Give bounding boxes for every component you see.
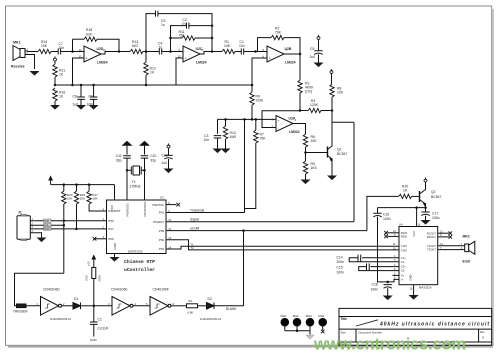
power +V tap above R8 bbox=[330, 69, 333, 74]
svg-text:Signal: Signal bbox=[190, 218, 199, 222]
node R11 left bbox=[169, 37, 172, 40]
svg-text:A: A bbox=[482, 336, 484, 340]
svg-text:Y1: Y1 bbox=[132, 180, 136, 184]
svg-text:R1IN: R1IN bbox=[401, 231, 407, 235]
svg-text:10n: 10n bbox=[204, 138, 210, 142]
svg-text:uCOM: uCOM bbox=[190, 226, 200, 230]
svg-text:62K: 62K bbox=[86, 33, 93, 37]
svg-text:1N4148DO35-10: 1N4148DO35-10 bbox=[200, 317, 222, 321]
resistor R12 1K bbox=[144, 52, 156, 86]
ground (C11, inverted) bbox=[123, 141, 131, 145]
svg-text:VCC: VCC bbox=[110, 204, 114, 211]
svg-text:1u0: 1u0 bbox=[310, 55, 316, 59]
svg-text:33p: 33p bbox=[150, 159, 156, 163]
svg-text:C14: C14 bbox=[336, 255, 342, 259]
wire J1 pin2 to pullup column bbox=[34, 224, 64, 226]
wire feedback right segment U2D bbox=[97, 39, 119, 51]
resistor R9 220K bbox=[250, 85, 264, 119]
wire Q2 emitter rail to MAX232 VCC bbox=[378, 207, 426, 209]
svg-text:P61: P61 bbox=[159, 211, 165, 215]
node R21/R16 bbox=[54, 84, 57, 87]
wire MH3 to ground bbox=[309, 331, 311, 335]
svg-text:200K: 200K bbox=[98, 275, 102, 282]
node U2D output bbox=[118, 50, 121, 53]
svg-text:10K: 10K bbox=[337, 91, 344, 95]
svg-text:P60/OSCI: P60/OSCI bbox=[125, 203, 129, 217]
wire U2D pin12 loop to vref rail bbox=[73, 58, 85, 85]
svg-text:27MHZ: 27MHZ bbox=[130, 185, 141, 189]
wire J1 pin1 to P50 row bbox=[34, 220, 106, 222]
node U2B input bbox=[254, 50, 257, 53]
node R19 pullup bbox=[75, 183, 78, 186]
svg-text:100n: 100n bbox=[371, 287, 379, 291]
svg-text:C10: C10 bbox=[150, 154, 156, 158]
node C6 on rail bbox=[92, 84, 95, 87]
microcontroller U3 EM78P153S box bbox=[103, 196, 172, 254]
resistor R8 10K bbox=[330, 74, 344, 111]
svg-text:LM324: LM324 bbox=[285, 61, 296, 65]
op-amp U2D LM324 bbox=[79, 46, 108, 65]
ground (C6) bbox=[89, 105, 99, 110]
resistor R2 6.8K (box style) bbox=[187, 299, 198, 315]
svg-text:C1+: C1+ bbox=[401, 256, 406, 260]
ground (J1) bbox=[37, 238, 47, 243]
svg-text:C6: C6 bbox=[89, 95, 93, 99]
wire VCC down to U4 bbox=[416, 208, 418, 227]
svg-text:10p: 10p bbox=[182, 21, 187, 25]
wire R19 to P67 row bbox=[76, 204, 78, 229]
capacitor C18 100n bbox=[371, 282, 392, 296]
svg-text:33p: 33p bbox=[116, 159, 122, 163]
svg-text:220K: 220K bbox=[256, 99, 265, 103]
svg-text:MAX232A: MAX232A bbox=[419, 285, 432, 289]
wire C9 loop right to output node bbox=[158, 14, 212, 52]
svg-text:75K: 75K bbox=[179, 33, 186, 37]
wire U2D output to R13 bbox=[101, 52, 130, 55]
wire mounting hole bus bbox=[285, 330, 310, 332]
connector J1 bbox=[17, 211, 34, 241]
resistor R3 4K99 bbox=[298, 54, 313, 111]
svg-text:EM78P153S: EM78P153S bbox=[128, 249, 143, 253]
svg-text:-: - bbox=[278, 127, 279, 131]
svg-text:U2B: U2B bbox=[285, 47, 292, 51]
ground (R5) bbox=[301, 180, 311, 185]
wire C9 loop left vertical bbox=[146, 14, 155, 52]
svg-text:-: - bbox=[269, 50, 270, 54]
svg-text:C11: C11 bbox=[116, 154, 122, 158]
capacitor C15 100n bbox=[336, 263, 399, 274]
power +V tap above Q2 bbox=[424, 177, 427, 182]
title scribble text bbox=[356, 320, 489, 328]
svg-text:120K: 120K bbox=[310, 103, 319, 107]
svg-text:+: + bbox=[269, 57, 271, 61]
capacitor C12 1u0 bbox=[162, 148, 173, 169]
svg-text:D2: D2 bbox=[208, 297, 212, 301]
svg-text:Receive: Receive bbox=[11, 65, 25, 69]
capacitor C10 33p bbox=[141, 146, 157, 171]
svg-text:1K: 1K bbox=[59, 73, 64, 77]
svg-text:BC847: BC847 bbox=[431, 195, 441, 199]
wire U2B output to R3 vertical bbox=[284, 53, 300, 55]
svg-text:10K: 10K bbox=[92, 197, 97, 201]
resistor R19 10K pull-up bbox=[74, 185, 85, 204]
op-amp U2C LM324 bbox=[178, 46, 207, 65]
svg-text:CD40106F: CD40106F bbox=[153, 288, 169, 292]
svg-text:R2IN: R2IN bbox=[401, 235, 407, 239]
node uCOM/BLANK column bbox=[242, 229, 245, 232]
svg-text:LM324: LM324 bbox=[97, 61, 108, 65]
wire mic pin1 to R14 bbox=[28, 51, 39, 53]
wire C4 to U2C input node bbox=[162, 51, 183, 53]
svg-text:C12: C12 bbox=[162, 154, 168, 158]
svg-text:C15: C15 bbox=[336, 266, 342, 270]
svg-text:LM324: LM324 bbox=[196, 61, 207, 65]
svg-text:P53: P53 bbox=[159, 229, 165, 233]
wire VCC pin from rail bbox=[114, 185, 116, 200]
svg-text:CLK: CLK bbox=[44, 224, 49, 227]
svg-text:U3: U3 bbox=[160, 196, 164, 200]
resistor R7 75K bbox=[245, 119, 267, 208]
power +V tap above R21 bbox=[54, 56, 57, 61]
resistor R4 120K bbox=[300, 99, 332, 113]
wire U2B pin6 loop down to vref rail end bbox=[252, 58, 267, 85]
ground (R10) bbox=[221, 149, 231, 154]
svg-text:10K: 10K bbox=[311, 139, 318, 143]
microphone MK1 (Receive) bbox=[11, 41, 29, 69]
svg-text:100n: 100n bbox=[432, 216, 440, 220]
wire trigger net from pullup column down left side bbox=[15, 273, 64, 306]
svg-text:1n: 1n bbox=[161, 23, 165, 27]
svg-text:1K: 1K bbox=[150, 71, 155, 75]
node MH2 bbox=[296, 329, 299, 332]
node threshold column on +rail bbox=[243, 118, 246, 121]
node U2B output bbox=[299, 53, 302, 56]
node R7 on +rail bbox=[255, 118, 257, 121]
node Y1 right bbox=[143, 169, 146, 172]
wire BLANK vertical bbox=[243, 231, 245, 306]
resistor R20 1K (base) bbox=[399, 185, 412, 199]
node R12/C9 junction bbox=[145, 50, 148, 53]
svg-text:C2-: C2- bbox=[401, 269, 405, 273]
node J1 pin2 bbox=[63, 224, 66, 227]
svg-text:1K5: 1K5 bbox=[311, 166, 317, 170]
svg-text:Chinese OTP: Chinese OTP bbox=[124, 259, 155, 265]
svg-text:BC847: BC847 bbox=[337, 152, 347, 156]
op-amp U2A LM324 bbox=[272, 116, 300, 135]
wire R2 to D2 bbox=[198, 305, 207, 307]
ground (U3) bbox=[110, 257, 120, 262]
ground (R16) bbox=[50, 105, 60, 110]
svg-text:1M0: 1M0 bbox=[230, 135, 237, 139]
ground (C18) bbox=[383, 296, 393, 301]
capacitor C7 10n bbox=[58, 42, 64, 55]
uController title text bbox=[124, 259, 155, 273]
wire uCOM net P53 bbox=[166, 230, 367, 232]
svg-text:40kHz ultrasonic distance circ: 40kHz ultrasonic distance circuit bbox=[379, 322, 489, 328]
wire R21 to vref rail bbox=[54, 77, 56, 85]
node R12/vref bbox=[145, 84, 148, 87]
svg-text:V-: V- bbox=[401, 278, 404, 282]
power +V tap above C5 bbox=[317, 35, 320, 40]
resistor R2 76K bbox=[271, 27, 284, 40]
capacitor C4 1n bbox=[158, 42, 162, 55]
node R6/R5/Q1 base bbox=[304, 151, 307, 154]
op-amp U2B LM324 bbox=[263, 46, 296, 65]
wire OSCO down to U3 bbox=[144, 170, 146, 200]
speaker MK2 (Emit) bbox=[461, 235, 475, 264]
svg-text:10K: 10K bbox=[41, 44, 48, 48]
wire R11 left segment bbox=[171, 37, 183, 39]
svg-text:U4: U4 bbox=[399, 222, 403, 226]
wire R2 right to output vertical bbox=[284, 38, 300, 54]
wire V+ stub bbox=[393, 274, 400, 276]
node C18 bbox=[386, 281, 389, 284]
svg-text:VCC: VCC bbox=[412, 231, 416, 237]
svg-text:P67: P67 bbox=[108, 227, 114, 231]
power +V tap for C12 bbox=[167, 143, 170, 148]
resistor R6 10K bbox=[303, 134, 317, 161]
no-connect X on P66 bbox=[93, 237, 107, 241]
net tag on J1 pin1 bbox=[44, 219, 52, 223]
svg-text:Size: Size bbox=[340, 330, 346, 334]
svg-text:GND: GND bbox=[409, 274, 413, 280]
svg-text:75K: 75K bbox=[260, 137, 267, 141]
svg-text:+: + bbox=[86, 57, 88, 61]
svg-text:R1OUT: R1OUT bbox=[427, 231, 436, 235]
capacitor C3 10n to ground bbox=[204, 119, 222, 148]
svg-text:LM324: LM324 bbox=[289, 130, 300, 134]
svg-text:10n: 10n bbox=[59, 46, 65, 50]
node pin12/vref bbox=[71, 84, 74, 87]
wire C1 to U2B input node bbox=[244, 51, 267, 53]
wire signal vertical down to P64 row bbox=[353, 122, 355, 222]
svg-text:C1-: C1- bbox=[401, 260, 405, 264]
wire GND pin down bbox=[114, 254, 116, 258]
no-connect X on R1OUT bbox=[438, 231, 452, 235]
crystal Y1 27MHZ bbox=[127, 166, 145, 189]
svg-text:[1%]: [1%] bbox=[305, 90, 312, 94]
node Q2 emitter bbox=[424, 206, 427, 209]
wire R14 to C7 bbox=[51, 51, 58, 53]
svg-text:Emit: Emit bbox=[463, 260, 471, 264]
svg-text:P52: P52 bbox=[159, 238, 165, 242]
svg-text:MH3: MH3 bbox=[306, 314, 312, 318]
wire R20 down through J1 rows to trigger net bbox=[63, 204, 65, 273]
svg-text:Rev: Rev bbox=[480, 330, 485, 334]
wire U4 GND pin down bbox=[413, 285, 415, 295]
wire threshold vertical bbox=[244, 119, 246, 212]
no-connect X on R2OUT bbox=[438, 235, 452, 239]
wire C2 right to output vertical bbox=[189, 25, 212, 27]
svg-text:R15: R15 bbox=[85, 275, 89, 281]
svg-text:MH1: MH1 bbox=[281, 314, 287, 318]
svg-text:GND: GND bbox=[90, 338, 98, 342]
net tag on J1 pin3 bbox=[44, 227, 52, 231]
wire P52 to T2 row bbox=[166, 240, 399, 250]
svg-text:100n: 100n bbox=[336, 260, 344, 264]
inverter CD40106D bbox=[37, 288, 66, 316]
svg-text:C17: C17 bbox=[432, 212, 438, 216]
svg-text:-: - bbox=[86, 50, 87, 54]
svg-text:100n: 100n bbox=[336, 270, 344, 274]
svg-text:www.cntronics.com: www.cntronics.com bbox=[313, 336, 466, 354]
svg-text:C8: C8 bbox=[73, 95, 77, 99]
svg-text:U2D: U2D bbox=[97, 47, 104, 51]
svg-text:P62/T0C: P62/T0C bbox=[152, 203, 165, 207]
svg-text:10K: 10K bbox=[80, 197, 85, 201]
wire Signal net P64/INT bbox=[166, 221, 354, 223]
diode D2 1N4148 bbox=[200, 297, 244, 321]
ground (C3) bbox=[213, 149, 223, 154]
capacitor C14 100n bbox=[336, 255, 399, 265]
svg-text:uController: uController bbox=[124, 267, 155, 273]
vref rail y=85 bbox=[55, 84, 252, 86]
svg-text:T2OUT: T2OUT bbox=[427, 248, 436, 252]
svg-text:C18: C18 bbox=[372, 283, 378, 287]
node R10 on rail bbox=[224, 118, 227, 121]
wire to inverter E input bbox=[94, 305, 112, 307]
resistor R5 1K5 bbox=[303, 161, 316, 180]
resistor R18 62K bbox=[84, 28, 97, 41]
node C2 right bbox=[211, 24, 214, 27]
svg-text:6K2: 6K2 bbox=[132, 44, 138, 48]
svg-text:J1: J1 bbox=[18, 211, 22, 215]
net tag on J1 pin2 bbox=[44, 223, 52, 227]
wire inverter F out to R2 bbox=[171, 305, 187, 307]
svg-text:0.01UF: 0.01UF bbox=[98, 327, 109, 331]
svg-text:10n: 10n bbox=[239, 44, 245, 48]
svg-text:U2A: U2A bbox=[289, 117, 296, 121]
wire OSCI down to U3 bbox=[126, 170, 128, 200]
IC U4 MAX232A box bbox=[393, 222, 444, 290]
svg-text:MH2: MH2 bbox=[293, 314, 299, 318]
resistor R10 1M0 bbox=[223, 119, 236, 148]
svg-text:Title: Title bbox=[340, 317, 347, 321]
svg-text:C5: C5 bbox=[310, 47, 314, 51]
svg-text:+5V: +5V bbox=[87, 261, 91, 266]
svg-text:R18: R18 bbox=[86, 28, 92, 32]
+V power arrow for pull-up rail bbox=[49, 177, 52, 185]
svg-text:P64/INT: P64/INT bbox=[153, 220, 164, 224]
wire inverter D out to D1 bbox=[62, 305, 74, 307]
svg-text:13: 13 bbox=[79, 48, 83, 52]
svg-text:GND: GND bbox=[113, 242, 117, 250]
svg-text:6.8K: 6.8K bbox=[188, 311, 194, 315]
node R19/P67 bbox=[75, 228, 78, 231]
svg-text:P51: P51 bbox=[159, 247, 165, 251]
wire +V to R21 bbox=[54, 61, 56, 64]
wire R20 to Q2 base bbox=[412, 195, 420, 197]
wire mic pin2 to ground bbox=[28, 55, 35, 70]
svg-text:P66: P66 bbox=[108, 237, 114, 241]
node R17 pullup bbox=[88, 183, 91, 186]
capacitor C1 10n bbox=[239, 40, 245, 55]
capacitor C11 33p bbox=[116, 146, 131, 171]
wire node B jog right to signal vertical bbox=[332, 121, 354, 123]
capacitor C1 0.01UF (one-shot) bbox=[90, 306, 109, 342]
wire R11 right to output vertical bbox=[195, 37, 212, 39]
node C8 on rail bbox=[80, 84, 83, 87]
resistor R20 10K pull-up bbox=[62, 185, 73, 204]
wire U2A output to R6 bbox=[293, 124, 306, 135]
wire R17 to P42/RST pin bbox=[89, 204, 106, 211]
diode D1 1N4148 bbox=[50, 297, 94, 321]
svg-text:D1: D1 bbox=[74, 297, 78, 301]
noninverting input rail y=119.4 bbox=[218, 118, 277, 120]
node U2D input bbox=[71, 50, 74, 53]
net tag TRIGGER bbox=[13, 304, 28, 314]
wire J1 pin4 to ground bbox=[34, 233, 41, 238]
svg-text:T2IN: T2IN bbox=[401, 248, 407, 252]
wire J1 pin3 to P67 row bbox=[34, 228, 106, 230]
wire T2OUT to speaker bbox=[438, 249, 465, 251]
resistor R1 10K bbox=[222, 40, 235, 54]
mounting hole MH1 bbox=[281, 314, 289, 331]
wire U2C pin10 loop to vref rail end bbox=[176, 58, 183, 85]
transistor Q2 BC847 bbox=[420, 182, 442, 208]
svg-text:CD40106E: CD40106E bbox=[111, 288, 128, 292]
+V power arrow for R15 bbox=[87, 256, 96, 268]
svg-text:76K: 76K bbox=[275, 31, 282, 35]
svg-text:P61/OSCO: P61/OSCO bbox=[143, 201, 147, 217]
svg-text:1n: 1n bbox=[159, 46, 163, 50]
wire inverter E to F bbox=[133, 305, 150, 307]
svg-text:MK2: MK2 bbox=[463, 235, 470, 239]
wire C2/R11 loop left vertical bbox=[171, 26, 187, 52]
no-connect X on R1IN bbox=[384, 231, 399, 235]
svg-text:TRIGGER: TRIGGER bbox=[13, 310, 28, 314]
ground (C12) bbox=[164, 169, 174, 174]
svg-text:100n: 100n bbox=[383, 217, 391, 221]
wire uCOM up to R20 row bbox=[367, 196, 399, 230]
svg-text:10K: 10K bbox=[224, 44, 231, 48]
no-connect X on R2IN bbox=[384, 235, 399, 239]
svg-text:10K: 10K bbox=[67, 197, 72, 201]
node R9 on +rail bbox=[251, 118, 254, 121]
svg-text:Threshold: Threshold bbox=[190, 208, 204, 212]
capacitor C8 1u0 bbox=[73, 85, 85, 107]
wire V- stub to C18 node bbox=[388, 279, 399, 282]
resistor R21 1K bbox=[53, 64, 66, 77]
mounting hole MH4 bbox=[318, 314, 326, 330]
wire feedback left vertical U2D bbox=[72, 39, 74, 51]
wire R16 to ground bbox=[54, 101, 56, 105]
ground (C17) bbox=[421, 220, 431, 225]
page shadow bbox=[8, 346, 493, 348]
node R20 pullup bbox=[63, 183, 66, 186]
capacitor C5 1u0 bbox=[310, 40, 323, 63]
inverter CD40106E bbox=[108, 288, 137, 316]
svg-text:R2: R2 bbox=[189, 299, 193, 303]
svg-text:VDD: VDD bbox=[44, 220, 49, 223]
resistor R11 75K bbox=[179, 30, 196, 40]
wire R1 to C1 bbox=[235, 51, 241, 53]
resistor R15 200K (box style) bbox=[85, 268, 102, 306]
wire feedback top left segment bbox=[73, 38, 85, 40]
svg-text:V+: V+ bbox=[401, 274, 405, 278]
no-connect X on P62/T0C bbox=[166, 203, 180, 207]
wire P51 to T1 row bbox=[166, 246, 399, 249]
svg-text:MH4: MH4 bbox=[318, 314, 324, 318]
svg-text:T1IN: T1IN bbox=[401, 244, 407, 248]
resistor R13 6K2 bbox=[130, 40, 143, 54]
svg-text:R2OUT: R2OUT bbox=[427, 235, 436, 239]
capacitor C17 100n bbox=[421, 208, 439, 220]
mounting hole MH2 bbox=[293, 314, 301, 331]
ground (mic) bbox=[30, 71, 40, 76]
capacitor C16 100n bbox=[373, 208, 390, 282]
svg-text:1K: 1K bbox=[59, 95, 64, 99]
